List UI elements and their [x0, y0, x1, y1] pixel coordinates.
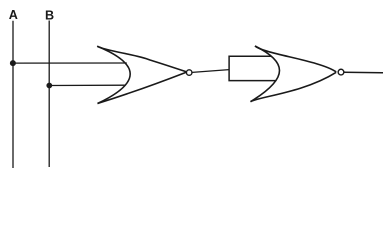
svg-text:B: B [45, 8, 54, 22]
svg-text:A: A [9, 8, 18, 22]
